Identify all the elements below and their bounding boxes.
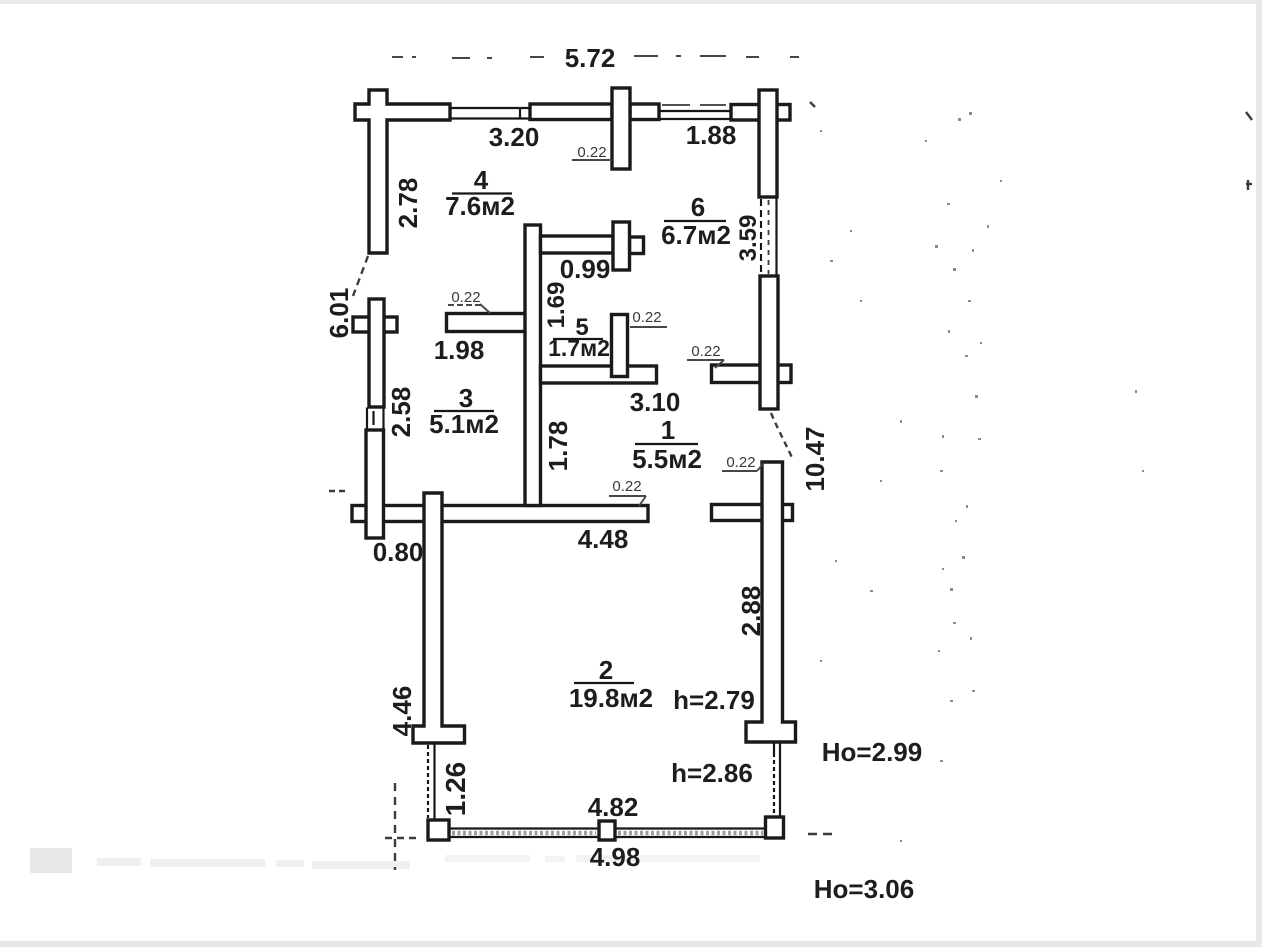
scan edge top xyxy=(0,0,1262,4)
scan edge bottom xyxy=(0,941,1262,947)
thin stem below left footing xyxy=(428,743,435,820)
svg-text:1.78: 1.78 xyxy=(543,421,573,472)
room 4 label xyxy=(445,165,515,221)
scan edge right xyxy=(1256,0,1262,947)
svg-text:1.88: 1.88 xyxy=(686,120,737,150)
window W2 (1.88 wall) xyxy=(660,105,731,119)
svg-text:2.58: 2.58 xyxy=(386,387,416,438)
svg-text:1.98: 1.98 xyxy=(434,335,485,365)
svg-text:6.7м2: 6.7м2 xyxy=(661,220,731,250)
svg-text:5.72: 5.72 xyxy=(565,43,616,73)
interior wall 1.98 xyxy=(447,314,526,332)
central wall A xyxy=(525,225,541,506)
pillar C8 bar xyxy=(613,222,630,270)
dash marks right of bottom wall xyxy=(808,833,838,835)
dash marks bottom-left xyxy=(385,837,418,839)
pillar C3 bar xyxy=(759,90,777,197)
svg-text:3.20: 3.20 xyxy=(489,122,540,152)
left room2 wall bump+bar+footing xyxy=(413,493,465,743)
svg-text:1.69: 1.69 xyxy=(543,282,570,329)
room 2 label xyxy=(569,655,653,713)
dimension line 5.72 top dashed xyxy=(392,56,799,58)
svg-text:2.78: 2.78 xyxy=(393,178,423,229)
faint smudges bottom-left xyxy=(30,848,760,873)
svg-text:0.99: 0.99 xyxy=(560,254,611,284)
svg-text:1: 1 xyxy=(661,415,675,445)
right room2 wall bar+footing xyxy=(746,462,796,742)
svg-text:Hо=2.99: Hо=2.99 xyxy=(822,737,922,767)
svg-text:6.01: 6.01 xyxy=(324,288,354,339)
pillar C3 arm xyxy=(731,105,790,121)
wall+pillar C4 arm xyxy=(712,365,792,383)
room 1 label xyxy=(632,415,702,474)
svg-text:0.22: 0.22 xyxy=(632,309,661,326)
pillar C1 top-left cross xyxy=(355,90,450,253)
wall segment S1 top xyxy=(530,104,612,120)
svg-text:5.5м2: 5.5м2 xyxy=(632,444,702,474)
svg-text:0.22: 0.22 xyxy=(726,454,755,471)
room5 top wall xyxy=(541,236,614,253)
svg-text:0.22: 0.22 xyxy=(612,478,641,495)
svg-text:1.7м2: 1.7м2 xyxy=(548,335,610,361)
svg-text:1.26: 1.26 xyxy=(440,762,471,817)
dash mark left of band xyxy=(329,490,347,492)
edge marks far right xyxy=(1246,112,1252,190)
room 6 label xyxy=(661,192,731,250)
pillar C6 bar xyxy=(369,299,384,407)
door dim 0.22 at 1.98 wall xyxy=(448,289,490,313)
bottom thin wall lines xyxy=(449,829,765,838)
svg-text:3.10: 3.10 xyxy=(630,387,681,417)
scatter noise specks xyxy=(820,112,1144,842)
thin stem below right footing xyxy=(774,743,780,817)
svg-text:h=2.79: h=2.79 xyxy=(673,685,755,715)
room 5 label xyxy=(548,314,610,361)
window W4 with tick xyxy=(367,408,384,431)
tiny tick top right xyxy=(810,102,815,107)
pillar C2 bar xyxy=(612,88,630,169)
room5 bottom wall xyxy=(541,366,657,383)
door dim 0.22 right lower xyxy=(722,454,764,471)
svg-text:6: 6 xyxy=(691,192,705,222)
door dim 0.22 at C4 arm xyxy=(687,343,724,368)
door dim 0.22 at room5 xyxy=(630,309,667,327)
svg-text:0.22: 0.22 xyxy=(691,343,720,360)
svg-text:4.82: 4.82 xyxy=(588,792,639,822)
pillar C5 arm right xyxy=(712,505,793,521)
corner square right xyxy=(766,817,784,838)
svg-text:0.22: 0.22 xyxy=(451,289,480,306)
svg-text:3.59: 3.59 xyxy=(735,215,762,262)
pillar C2 arm xyxy=(630,104,659,120)
pillar C8 stub xyxy=(630,237,644,254)
pillar C6 arm xyxy=(353,317,397,332)
corner square left xyxy=(428,820,449,840)
svg-text:0.22: 0.22 xyxy=(577,144,606,161)
svg-text:0.80: 0.80 xyxy=(373,537,424,567)
wall: bottom band of upper section (4.48 wall) xyxy=(352,506,648,522)
corner square middle xyxy=(599,821,615,840)
room5 T bar xyxy=(612,315,628,377)
svg-text:2.88: 2.88 xyxy=(736,586,766,637)
door dim 0.22 at band xyxy=(609,478,646,506)
window W3 vertical (3.59) xyxy=(761,197,777,276)
svg-text:2: 2 xyxy=(599,655,613,685)
window W1 (3.20 wall) xyxy=(450,108,530,119)
svg-text:19.8м2: 19.8м2 xyxy=(569,683,653,713)
room 3 label xyxy=(429,383,499,439)
svg-text:4.98: 4.98 xyxy=(590,842,641,872)
door dim 0.22 top xyxy=(572,144,612,161)
dash leader right opening to 10.47 xyxy=(771,413,793,460)
svg-text:5.1м2: 5.1м2 xyxy=(429,409,499,439)
svg-text:10.47: 10.47 xyxy=(800,426,830,491)
svg-text:Hо=3.06: Hо=3.06 xyxy=(814,874,914,904)
dash-dot vertical bottom-left xyxy=(394,783,396,870)
svg-text:7.6м2: 7.6м2 xyxy=(445,191,515,221)
wall segment right + C4 bar xyxy=(760,276,778,409)
dash leader top-left opening xyxy=(353,256,368,296)
svg-text:4.46: 4.46 xyxy=(387,686,417,737)
left wall lower segment B + foot xyxy=(366,430,384,538)
svg-text:4.48: 4.48 xyxy=(578,524,629,554)
svg-text:h=2.86: h=2.86 xyxy=(671,758,753,788)
